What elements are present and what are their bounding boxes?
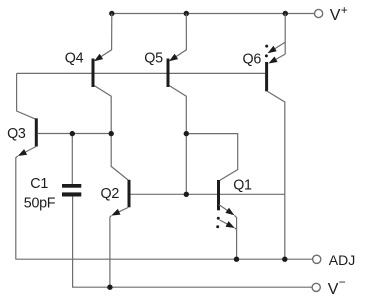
svg-text:ADJ: ADJ: [329, 252, 355, 268]
node Q4 collector junction: [109, 131, 114, 136]
wire Q3 base line: [38, 133, 112, 135]
node V- junction Q2: [107, 285, 112, 290]
wire Q2-Q1 base rail: [130, 193, 284, 195]
transistor Q3 base bar: [35, 118, 38, 146]
svg-text:Q5: Q5: [144, 51, 163, 67]
node ADJ junction Q1: [234, 257, 239, 262]
label Q5: [144, 51, 163, 67]
label 50pF: [24, 195, 56, 211]
transistor Q6 emitter 2 (lower): [268, 54, 285, 63]
transistor Q6 emitter feed: [284, 14, 286, 55]
node base rail junction: [184, 192, 189, 197]
wire V+ rail: [111, 13, 314, 15]
wire ADJ rail: [16, 258, 313, 260]
transistor Q6 base bar: [265, 62, 268, 91]
transistor Q5 emitter: [169, 14, 186, 62]
svg-text:V: V: [330, 7, 341, 24]
node C1 top junction: [70, 131, 75, 136]
transistor Q2 emitter: [110, 207, 128, 287]
node ADJ junction Q6: [282, 257, 287, 262]
terminal ADJ: [313, 255, 321, 263]
capacitor C1 bottom plate: [62, 192, 81, 196]
node Q1 multi-emitter dot 1: [217, 217, 220, 220]
label Q3: [7, 126, 26, 142]
svg-text:V: V: [328, 281, 339, 298]
label Q1: [233, 178, 252, 194]
wire Q3 collector riser: [17, 73, 36, 119]
node top-rail junction Q5: [184, 11, 189, 16]
transistor Q4 collector: [94, 86, 128, 180]
terminal V-: [312, 283, 320, 291]
transistor Q4 emitter: [94, 14, 112, 62]
label V+: [330, 3, 348, 24]
svg-text:50pF: 50pF: [24, 195, 56, 211]
label C1: [30, 176, 48, 192]
capacitor C1 top plate: [62, 184, 81, 188]
svg-text:Q4: Q4: [65, 50, 84, 66]
transistor Q1 base bar: [217, 180, 220, 210]
wire C1 top lead: [71, 134, 73, 184]
label Q2: [101, 186, 120, 202]
svg-text:Q3: Q3: [7, 126, 26, 142]
label V-: [328, 275, 346, 298]
svg-text:−: −: [339, 275, 346, 289]
wire Q5 collector to Q1 collector: [186, 134, 237, 181]
wire C1 bottom lead: [73, 197, 312, 288]
transistor Q4 base bar: [92, 59, 95, 88]
label Q6: [243, 51, 262, 67]
transistor Q5 collector: [169, 86, 186, 195]
node Q1 multi-emitter dot 2: [216, 225, 219, 228]
transistor Q1 emitter 1: [219, 205, 237, 260]
wire base rail Q4-Q5-Q6: [17, 72, 266, 74]
terminal V+: [315, 9, 323, 17]
transistor Q6 emitter 1 (upper, ellipsis): [268, 42, 286, 53]
node top-rail junction Q6: [283, 11, 288, 16]
transistor Q3 emitter: [16, 147, 36, 260]
node Q6 multi-emitter dot 1: [265, 45, 268, 48]
node Q5 collector junction: [184, 131, 189, 136]
label Q4: [65, 50, 84, 66]
svg-text:C1: C1: [30, 176, 48, 192]
transistor Q1 emitter 2 (ellipsis): [220, 220, 237, 230]
node Q6 multi-emitter dot 2: [265, 54, 268, 57]
label ADJ: [329, 252, 355, 268]
svg-text:Q2: Q2: [101, 186, 120, 202]
svg-text:+: +: [341, 3, 348, 17]
svg-text:Q6: Q6: [243, 51, 262, 67]
transistor Q6 collector: [267, 91, 285, 259]
transistor Q2 base bar: [128, 180, 131, 208]
node top-rail junction Q4: [109, 11, 114, 16]
svg-text:Q1: Q1: [233, 178, 252, 194]
transistor Q5 base bar: [167, 59, 170, 88]
